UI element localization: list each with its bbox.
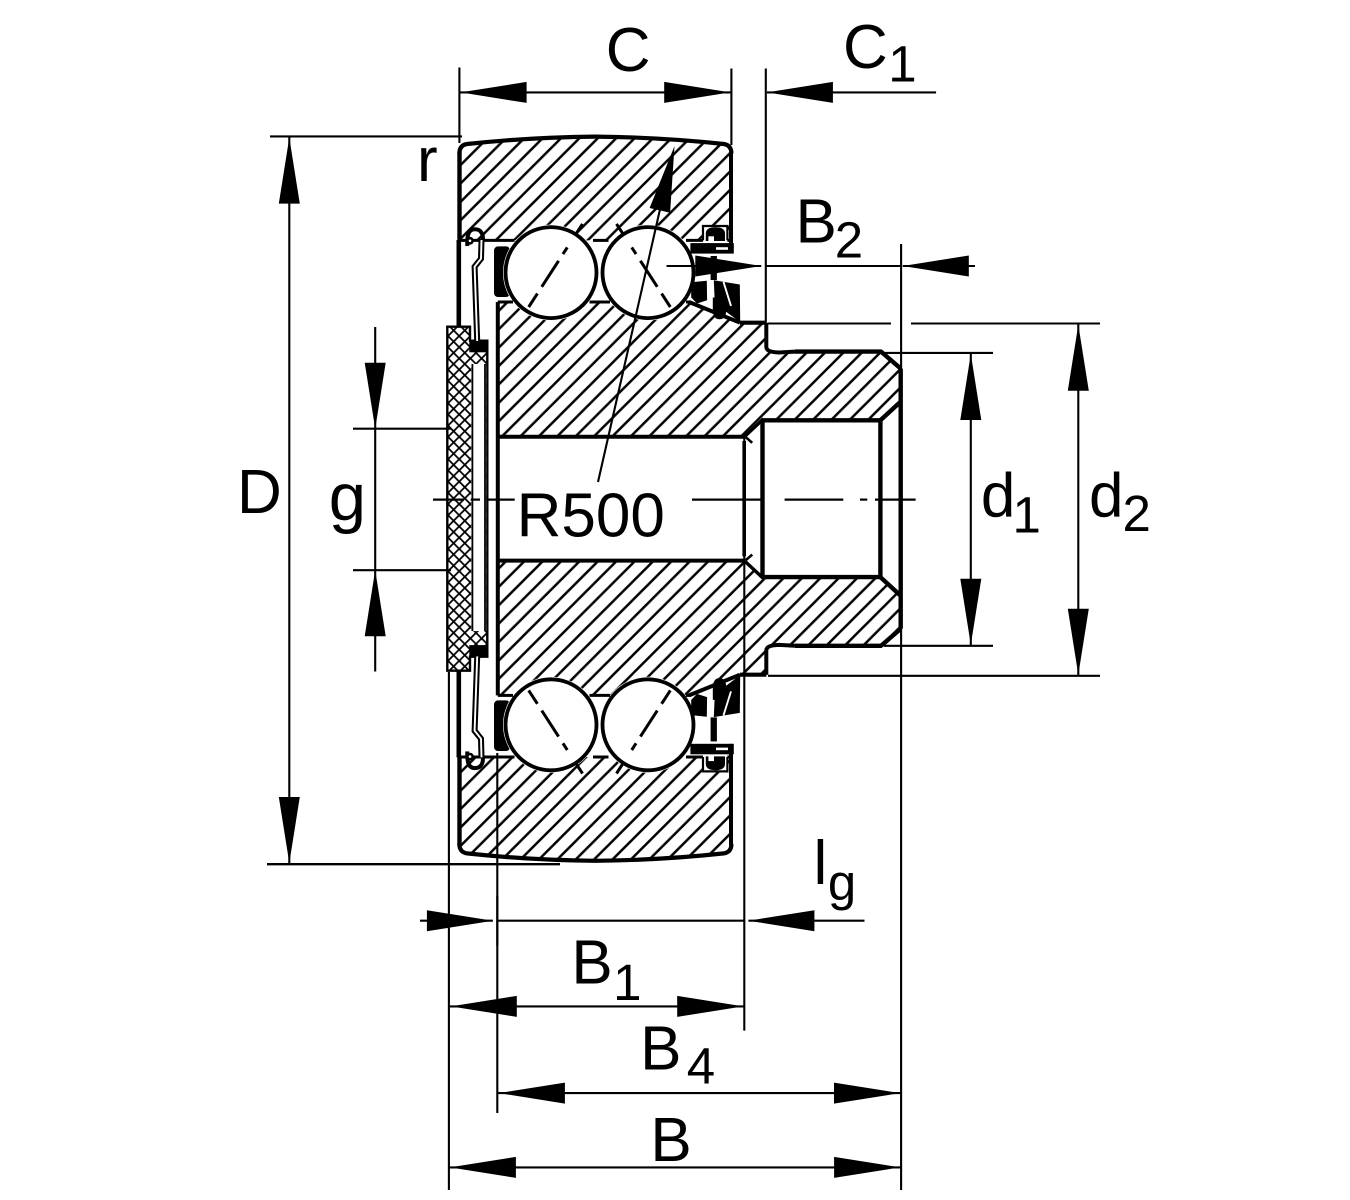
svg-text:B: B — [640, 1014, 681, 1083]
svg-text:2: 2 — [835, 211, 863, 268]
inner ring and stud (bottom section) — [498, 561, 901, 695]
dimension d2 — [768, 324, 1100, 676]
svg-text:C: C — [843, 13, 888, 82]
dimension B1 — [450, 1005, 745, 1007]
dimension B2 — [667, 265, 976, 267]
extension line washer left face (B/B1) — [448, 672, 450, 1190]
svg-text:1: 1 — [1013, 487, 1041, 544]
seal anchor hook bottom-left — [466, 656, 483, 768]
svg-text:r: r — [417, 126, 438, 195]
dimension lg — [420, 896, 865, 946]
svg-text:R500: R500 — [517, 482, 665, 551]
ball grooves (white clearance) — [503, 225, 696, 773]
dimension B4 — [498, 1092, 901, 1094]
svg-text:g: g — [329, 460, 366, 535]
outer ring (top section) — [459, 137, 731, 254]
center axis line — [433, 499, 916, 501]
ball top-right — [603, 224, 694, 318]
ball bottom-right — [603, 679, 694, 773]
svg-text:C: C — [606, 16, 651, 85]
cage segment top-left — [494, 246, 510, 297]
seal lip bar top-left — [456, 240, 461, 328]
ball top-left — [506, 224, 597, 318]
svg-text:g: g — [828, 854, 856, 911]
inner ring and stud (top section) — [498, 302, 901, 436]
seal assembly bottom-right — [690, 675, 740, 770]
svg-text:B: B — [571, 928, 612, 997]
svg-text:1: 1 — [613, 954, 641, 1011]
dimension D — [267, 136, 560, 864]
svg-text:d: d — [1089, 461, 1123, 530]
seal assembly top-right — [690, 227, 740, 322]
outer ring bore surface lines — [461, 226, 731, 771]
svg-text:d: d — [981, 461, 1015, 530]
svg-text:D: D — [237, 458, 282, 527]
outer ring (bottom section) — [459, 744, 731, 861]
svg-text:2: 2 — [1123, 485, 1151, 542]
extension line right (stud end / B,B4) — [900, 244, 902, 1190]
svg-text:1: 1 — [888, 36, 916, 93]
inner ring and stud outlines — [498, 302, 901, 695]
dimension d1 — [884, 353, 993, 646]
svg-text:4: 4 — [687, 1038, 715, 1095]
extension line inner ring right face (B1/lg) — [743, 437, 745, 1031]
svg-text:B: B — [796, 188, 837, 257]
dimension g — [353, 327, 451, 672]
ball bottom-left — [506, 679, 597, 773]
seal washer (cross-hatched, left) — [447, 327, 487, 671]
svg-text:B: B — [650, 1106, 691, 1175]
dimension C — [459, 68, 731, 146]
seal lip bar bottom-left — [456, 670, 461, 758]
cage segment bottom-left — [494, 700, 510, 751]
seal anchor hook top-left — [466, 229, 483, 341]
svg-text:l: l — [814, 829, 828, 898]
inner ring outer surface lines — [498, 302, 690, 695]
dimension C1 — [766, 69, 936, 323]
extension line inner ring left face (B4/lg) — [496, 753, 498, 1113]
label R500 with leader — [598, 205, 661, 482]
dimension B — [449, 1166, 901, 1168]
